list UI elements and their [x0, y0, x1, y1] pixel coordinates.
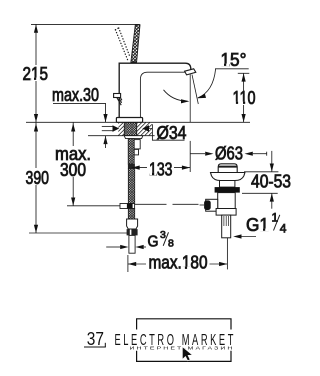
node counter-top-line — [26, 121, 250, 123]
supply tube — [129, 235, 135, 253]
escutcheon base plate — [116, 118, 142, 123]
drain nut — [216, 209, 236, 216]
node 133-dimension — [131, 159, 190, 179]
hose crimp — [128, 164, 135, 169]
node max180-dimension — [128, 253, 227, 273]
svg-text:3: 3 — [160, 229, 166, 241]
node arc-left — [164, 90, 188, 102]
svg-text:15°: 15° — [221, 50, 247, 70]
node max30-dimension — [52, 85, 108, 148]
svg-text:133: 133 — [149, 159, 173, 179]
svg-text:215: 215 — [23, 64, 49, 84]
node arc-right — [198, 69, 216, 98]
svg-text:max.180: max.180 — [149, 253, 208, 273]
node stream-tilted — [192, 75, 198, 104]
drain neck — [220, 181, 235, 188]
node hole-arrow-left — [102, 125, 119, 132]
wire — [31, 23, 140, 25]
svg-text:4: 4 — [280, 221, 287, 235]
label O63 — [190, 144, 267, 164]
svg-text:300: 300 — [60, 160, 86, 180]
G3/8 connector nut — [127, 219, 138, 229]
aerator flap — [185, 69, 196, 75]
node max300-dimension — [53, 122, 123, 206]
drain body — [218, 193, 236, 209]
side port — [206, 199, 218, 211]
svg-text:390: 390 — [26, 168, 50, 188]
svg-text:G: G — [148, 233, 159, 250]
svg-text:110: 110 — [233, 88, 256, 108]
drain flange — [211, 173, 245, 181]
node counter-hatch-right — [137, 123, 152, 136]
logo frame top — [137, 319, 231, 330]
rubber gasket — [215, 187, 240, 193]
node ext-line-190 — [189, 141, 191, 172]
svg-text:ИНТЕРНЕТ-МАГАЗИН: ИНТЕРНЕТ-МАГАЗИН — [130, 346, 235, 351]
wire pop-up dashed — [135, 203, 201, 205]
pop-up rod knob — [114, 94, 122, 106]
svg-text:8: 8 — [168, 238, 174, 250]
node stream-vertical — [189, 74, 191, 122]
svg-text:max.30: max.30 — [52, 85, 99, 105]
mounting nut — [134, 140, 140, 149]
node counter-hatch-left — [118, 123, 124, 136]
label G1-1/4 — [233, 211, 287, 239]
tailpipe — [222, 215, 231, 238]
drain centerline — [226, 238, 228, 270]
lever ghost dashed — [115, 28, 130, 60]
lever solid — [131, 25, 140, 62]
pop-up linkage bar — [120, 204, 135, 209]
flex hose lower — [128, 209, 134, 220]
threaded shank — [124, 123, 136, 136]
node 390-dimension — [24, 122, 127, 233]
svg-text:37: 37 — [87, 329, 104, 349]
flex hose upper — [128, 169, 134, 204]
faucet body outline — [119, 63, 191, 117]
node hole-arrow-right — [142, 125, 149, 132]
svg-text:Ø63: Ø63 — [215, 144, 243, 164]
logo frame bottom — [137, 351, 231, 362]
label O34 flag — [149, 123, 187, 143]
node counter-bottom-line — [88, 135, 155, 137]
node 110-dimension — [231, 73, 257, 122]
svg-text:1: 1 — [272, 211, 279, 225]
svg-text:40-53: 40-53 — [251, 172, 291, 192]
drain pop-up cap — [218, 164, 237, 173]
svg-text:G1: G1 — [246, 215, 269, 235]
horseshoe washer — [124, 136, 143, 139]
svg-text:Ø34: Ø34 — [157, 123, 187, 143]
node glyph-fixups — [32, 64, 269, 270]
threaded rod — [128, 139, 134, 164]
node 40-53-dimension — [242, 151, 291, 209]
cursor pointer — [182, 347, 192, 361]
node 215-dimension — [22, 24, 50, 122]
label G3/8 — [106, 229, 174, 251]
